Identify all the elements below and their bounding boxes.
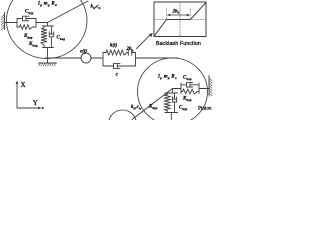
svg-text:Kbyp​: Kbyp​ xyxy=(148,105,158,110)
svg-text:Cbxp​: Cbxp​ xyxy=(183,76,192,81)
svg-text:Kbxg​: Kbxg​ xyxy=(28,42,38,47)
svg-text:Y: Y xyxy=(33,99,38,107)
svg-text:2bh​: 2bh​ xyxy=(172,9,180,14)
svg-text:Ig​ mg​ R2​: Ig​ mg​ R2​ xyxy=(37,2,57,7)
svg-text:k(t): k(t) xyxy=(110,44,118,49)
svg-text:Ip​ mp​ R1​: Ip​ mp​ R1​ xyxy=(157,75,177,80)
svg-text:2bh​: 2bh​ xyxy=(126,47,134,52)
svg-text:kh​,ch​: kh​,ch​ xyxy=(131,105,141,110)
svg-text:Pinion: Pinion xyxy=(198,106,212,112)
svg-text:Kbxp​: Kbxp​ xyxy=(182,97,192,102)
svg-text:Cbxg​: Cbxg​ xyxy=(57,36,66,41)
svg-text:X: X xyxy=(21,81,26,89)
svg-text:Cbyp​: Cbyp​ xyxy=(179,106,188,111)
svg-text:Cbyg​: Cbyg​ xyxy=(25,10,34,15)
svg-text:c: c xyxy=(116,72,119,78)
svg-text:Backlash Function: Backlash Function xyxy=(156,41,201,47)
svg-text:e(t): e(t) xyxy=(80,50,87,55)
svg-text:kh​,ch​: kh​,ch​ xyxy=(91,5,101,10)
svg-text:Kbyg​: Kbyg​ xyxy=(23,34,33,39)
